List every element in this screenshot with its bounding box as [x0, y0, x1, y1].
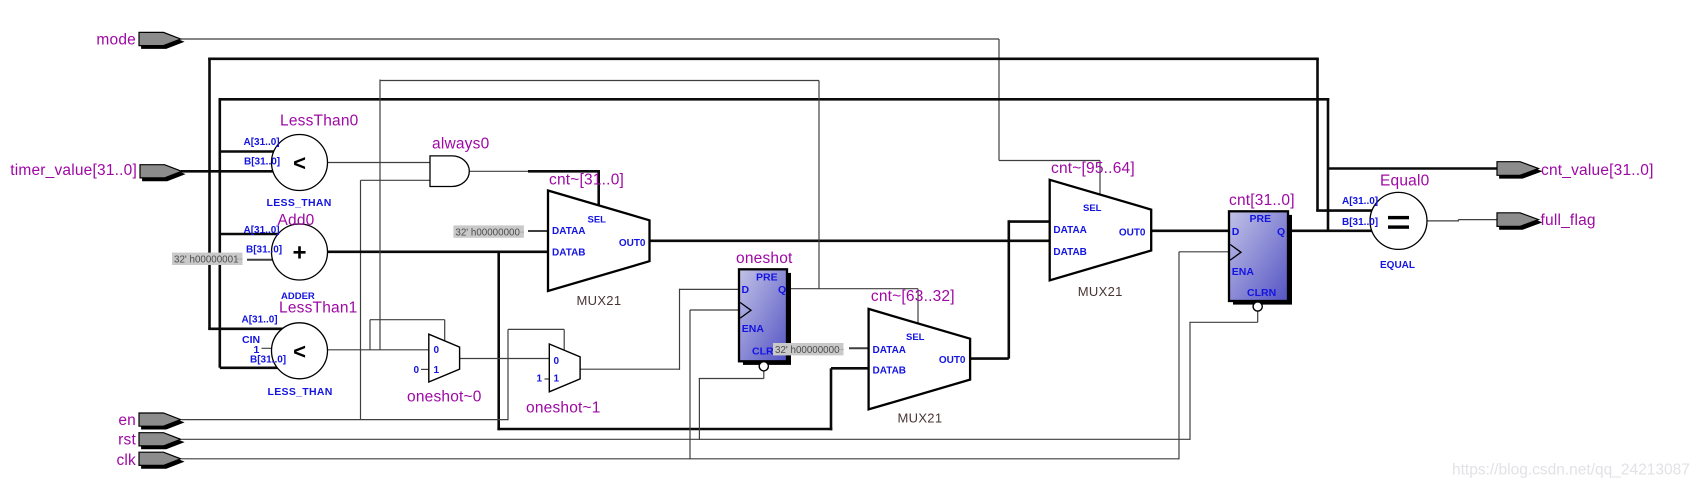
wire oneshot~0 SEL drop: [444, 320, 446, 342]
MUX2 pin OUT0: [939, 355, 966, 366]
wire cnt clock input: [1179, 251, 1230, 253]
wire MUX1 OUT0 to MUX3 DATAB: [650, 240, 1051, 243]
wire LessThan1 CIN stub: [262, 347, 286, 349]
svg-text:PRE: PRE: [756, 271, 778, 283]
wire cnt bus bottom y429: [497, 428, 832, 431]
svg-text:A[31..0]: A[31..0]: [244, 137, 280, 148]
svg-text:B[31..0]: B[31..0]: [1342, 217, 1378, 228]
multiplexer MUX1 cnt~[31..0]: [548, 191, 650, 292]
svg-text:LessThan0: LessThan0: [280, 112, 359, 129]
wire MUX2 SEL drop x918: [917, 289, 919, 324]
oneshot~1 port 1 label: [554, 374, 560, 385]
svg-text:PRE: PRE: [1250, 213, 1272, 225]
LessThan0 pin A[31..0]: [244, 137, 280, 148]
svg-text:timer_value[31..0]: timer_value[31..0]: [10, 162, 137, 179]
svg-text:--: --: [518, 227, 525, 238]
wire MUX2 OUT0: [969, 357, 1009, 360]
wire mode vertical x999: [998, 39, 1000, 161]
flip-flop cnt[31..0]: [1229, 211, 1292, 304]
wire Add0 B input from constant: [247, 259, 278, 261]
svg-text:32' h00000000: 32' h00000000: [455, 227, 520, 238]
wire cnt feedback vertical x219: [219, 98, 222, 368]
wire oneshot D input: [680, 288, 741, 290]
svg-text:32' h00000001: 32' h00000001: [174, 255, 239, 266]
wire en riser x508: [507, 329, 509, 420]
MUX2 pin DATAB: [873, 365, 907, 376]
wire always0 output bus: [528, 170, 599, 173]
input pin clk: [116, 452, 183, 469]
wire Add0 output to MUX1 DATAB: [326, 251, 549, 254]
MUX2 pin DATAA: [873, 345, 907, 356]
cnt CLRN bubble: [1253, 302, 1262, 311]
svg-text:--: --: [838, 345, 845, 356]
MUX1 type label MUX21: [577, 293, 622, 308]
svg-text:oneshot~0: oneshot~0: [407, 388, 482, 405]
LessThan0 type label LESS_THAN: [267, 197, 332, 209]
svg-text:SEL: SEL: [1083, 203, 1102, 214]
adder Add0 symbol: [272, 224, 328, 280]
wire mode horizontal: [181, 38, 999, 40]
MUX1 pin SEL: [588, 214, 607, 225]
svg-text:DATAA: DATAA: [552, 226, 586, 237]
cnt pin ENA: [1232, 266, 1255, 278]
svg-text:DATAA: DATAA: [873, 345, 907, 356]
svg-text:OUT0: OUT0: [619, 238, 646, 249]
wire timer_value vertical x209: [208, 58, 211, 329]
MUX1 name label cnt~[31..0]: [549, 171, 624, 188]
Equal0 pin B[31..0]: [1342, 217, 1378, 228]
wire MUX3 SEL drop: [1099, 161, 1101, 196]
wire LessThan0 output to AND: [326, 162, 430, 164]
svg-text:ENA: ENA: [1232, 266, 1255, 278]
svg-text:CLRN: CLRN: [1247, 287, 1276, 299]
LessThan0 pin B[31..0]: [244, 156, 280, 167]
MUX3 pin DATAB: [1053, 247, 1087, 258]
svg-text:MUX21: MUX21: [898, 410, 943, 425]
input pin rst: [118, 431, 183, 448]
MUX3 pin OUT0: [1119, 228, 1146, 239]
mux oneshot~1: [549, 344, 580, 392]
wire MUX3 OUT0 to cnt D: [1150, 230, 1230, 233]
svg-text:MUX21: MUX21: [577, 293, 622, 308]
svg-text:oneshot: oneshot: [736, 250, 793, 267]
wire cnt CLRN down: [1257, 311, 1259, 322]
LessThan1 pin CIN: [242, 334, 260, 346]
constant 32'h00000001 value box: [172, 253, 243, 266]
comparator LessThan1 symbol: [272, 323, 328, 379]
svg-text:ENA: ENA: [742, 323, 765, 335]
multiplexer MUX3 cnt~[95..64]: [1050, 180, 1152, 280]
wire LessThan0 A input: [220, 150, 276, 153]
MUX2 type label MUX21: [898, 410, 943, 425]
wire oneshot~1 SEL drop: [563, 329, 565, 351]
wire clk riser x690: [689, 310, 691, 459]
wire Add0 A input: [220, 233, 280, 236]
mux oneshot~0: [429, 334, 460, 382]
svg-text:EQUAL: EQUAL: [1380, 260, 1415, 271]
oneshot pin ENA: [742, 323, 765, 335]
Add0 type label ADDER: [281, 291, 315, 302]
oneshot~1 const 1 label: [537, 373, 543, 384]
svg-text:32' h00000000: 32' h00000000: [775, 345, 840, 356]
comparator Equal0 symbol: [1370, 192, 1427, 249]
wire always0 output thin: [469, 170, 529, 172]
cnt pin CLRN: [1247, 287, 1276, 299]
wire oneshot~1 out riser x679: [679, 289, 681, 370]
svg-text:A[31..0]: A[31..0]: [242, 314, 278, 325]
wire constant to MUX1 DATAA: [528, 230, 550, 232]
svg-text:1: 1: [434, 365, 440, 376]
wire MUX1 SEL drop: [597, 170, 600, 206]
wire oneshot CLR down: [763, 371, 765, 379]
Equal0 type label EQUAL: [1380, 260, 1415, 271]
svg-text:<: <: [293, 151, 306, 176]
comparator LessThan0 symbol: [272, 135, 328, 191]
wire Equal0 A input: [1316, 209, 1374, 212]
svg-text:D: D: [1232, 226, 1240, 238]
svg-text:1: 1: [554, 374, 560, 385]
svg-text:Add0: Add0: [278, 212, 315, 229]
wire oneshot Q feedback drop x819: [818, 81, 820, 289]
Add0 pin B[31..0]: [246, 245, 282, 256]
constant 32'h00000000 value box (MUX2): [773, 343, 844, 356]
svg-text:Q: Q: [1277, 226, 1285, 238]
Equal0 name label: [1380, 172, 1430, 189]
wire cnt Q to Equal0 B: [1290, 230, 1374, 233]
svg-text:0: 0: [554, 356, 560, 367]
svg-text:Q: Q: [778, 284, 786, 296]
wire constant to MUX2 DATAA: [849, 347, 870, 349]
svg-text:https://blog.csdn.net/qq_24213: https://blog.csdn.net/qq_24213087: [1452, 462, 1690, 479]
svg-text:cnt~[63..32]: cnt~[63..32]: [871, 288, 955, 305]
wire rst riser x699: [698, 379, 700, 440]
AND gate always0: [430, 156, 469, 187]
svg-text:DATAB: DATAB: [552, 248, 586, 259]
wire timer_value drop x1317 to Equal0: [1316, 59, 1319, 211]
wire oneshot Q feedback top y80: [380, 80, 819, 82]
svg-text:clk: clk: [116, 452, 136, 469]
MUX3 pin SEL: [1083, 203, 1102, 214]
wire cnt_value output bus: [1328, 167, 1498, 170]
svg-text:oneshot~1: oneshot~1: [526, 399, 601, 416]
svg-text:mode: mode: [96, 31, 136, 48]
always0 name label: [432, 136, 490, 153]
wire mode to MUX3 sel: [999, 160, 1100, 162]
LessThan0 name label: [280, 112, 359, 129]
wire LessThan1 out riser x370: [369, 320, 371, 350]
svg-text:LESS_THAN: LESS_THAN: [267, 197, 332, 209]
cnt name label cnt[31..0]: [1229, 192, 1295, 209]
svg-text:rst: rst: [118, 431, 136, 448]
wire rst input: [182, 438, 1190, 440]
svg-text:OUT0: OUT0: [1119, 228, 1146, 239]
LessThan1 pin A[31..0]: [242, 314, 278, 325]
svg-text:always0: always0: [432, 136, 490, 153]
svg-text:A[31..0]: A[31..0]: [244, 225, 280, 236]
wire cnt bus rise x831 to MUX2 DATAB: [830, 368, 833, 430]
wire oneshot CLR horizontal: [699, 378, 764, 380]
wire MUX2 out riser x1008: [1007, 220, 1010, 358]
svg-text:B[31..0]: B[31..0]: [246, 245, 282, 256]
wire rst riser x1190: [1189, 322, 1191, 440]
cnt pin Q: [1277, 226, 1285, 238]
wire oneshot~0 output: [459, 358, 551, 360]
svg-text:0: 0: [434, 345, 440, 356]
wire en input: [182, 419, 508, 421]
wire cnt feedback drop x1328: [1327, 99, 1330, 232]
wire LessThan1 B input: [220, 366, 280, 369]
MUX3 name label cnt~[95..64]: [1051, 160, 1135, 177]
MUX1 pin DATAA: [552, 226, 586, 237]
wire LessThan1 output to oneshot~0: [326, 349, 430, 351]
wire LessThan1 A input: [208, 327, 286, 330]
svg-text:B[31..0]: B[31..0]: [244, 156, 280, 167]
input pin timer_value[31..0]: [10, 162, 184, 181]
svg-text:en: en: [118, 412, 136, 429]
oneshot pin Q: [778, 284, 786, 296]
wire timer_value bus: [181, 170, 276, 173]
oneshot name label: [736, 250, 793, 267]
oneshot pin PRE: [756, 271, 778, 283]
svg-text:A[31..0]: A[31..0]: [1342, 196, 1378, 207]
wire MUX2 DATAB input: [831, 367, 870, 370]
svg-text:D: D: [742, 284, 750, 296]
wire AND input 2 from en: [361, 179, 431, 181]
wire cnt feedback top bus y99: [219, 98, 1330, 101]
svg-text:LessThan1: LessThan1: [279, 300, 358, 317]
svg-text:B[31..0]: B[31..0]: [250, 354, 286, 365]
wire oneshot~0 port1 const stub: [421, 368, 430, 370]
output pin full_flag: [1497, 212, 1596, 229]
Add0 name label: [278, 212, 315, 229]
svg-text:CLR: CLR: [752, 345, 774, 357]
wire clk input: [182, 458, 1179, 460]
svg-text:SEL: SEL: [588, 214, 607, 225]
watermark text: [1452, 462, 1690, 479]
svg-text:MUX21: MUX21: [1078, 284, 1123, 299]
Add0 pin A[31..0]: [244, 225, 280, 236]
MUX1 pin OUT0: [619, 238, 646, 249]
MUX3 type label MUX21: [1078, 284, 1123, 299]
oneshot~1 port 0 label: [554, 356, 560, 367]
wire cnt CLRN horizontal: [1189, 321, 1257, 323]
MUX2 pin SEL: [906, 332, 925, 343]
svg-text:cnt[31..0]: cnt[31..0]: [1229, 192, 1295, 209]
svg-text:DATAB: DATAB: [873, 365, 907, 376]
oneshot pin D: [742, 284, 750, 296]
wire MUX3 DATAA input: [1009, 220, 1051, 223]
flip-flop oneshot: [739, 269, 791, 365]
svg-text:+: +: [292, 240, 306, 267]
output pin cnt_value[31..0]: [1497, 162, 1654, 179]
wire cnt bus drop x498: [497, 252, 500, 430]
LessThan1 name label: [279, 300, 358, 317]
MUX1 pin DATAB: [552, 248, 586, 259]
wire oneshot~1 output: [579, 368, 679, 370]
svg-text:Equal0: Equal0: [1380, 172, 1430, 189]
svg-text:<: <: [293, 339, 306, 364]
svg-text:DATAA: DATAA: [1053, 225, 1087, 236]
wire clk riser x1179: [1178, 252, 1180, 460]
cnt pin D: [1232, 226, 1240, 238]
oneshot~0 port 0 label: [434, 345, 440, 356]
svg-text:LESS_THAN: LESS_THAN: [268, 386, 333, 398]
svg-text:--: --: [237, 254, 244, 265]
svg-text:SEL: SEL: [906, 332, 925, 343]
wire oneshot~1 port1 const stub: [545, 378, 551, 380]
input pin mode: [96, 31, 183, 48]
multiplexer MUX2 cnt~[63..32]: [869, 309, 971, 410]
wire oneshot clock input: [690, 309, 740, 311]
Equal0 pin A[31..0]: [1342, 196, 1378, 207]
svg-text:1: 1: [537, 373, 543, 384]
wire oneshot~0 SEL top: [370, 319, 445, 321]
wire oneshot Q output: [790, 288, 919, 290]
LessThan1 type label LESS_THAN: [268, 386, 333, 398]
LessThan1 CIN constant 1: [254, 344, 260, 356]
input pin en: [118, 412, 183, 429]
wire en to AND vertical x360: [360, 180, 362, 419]
oneshot~0 port 1 label: [434, 365, 440, 376]
oneshot~1 name label: [526, 399, 601, 416]
wire oneshot Q feedback vertical x380: [379, 80, 381, 350]
svg-text:cnt_value[31..0]: cnt_value[31..0]: [1541, 162, 1654, 179]
wire Equal0 output: [1425, 220, 1498, 222]
oneshot~0 const 0 label: [414, 365, 420, 376]
svg-text:DATAB: DATAB: [1053, 247, 1087, 258]
oneshot~0 name label: [407, 388, 482, 405]
svg-text:OUT0: OUT0: [939, 355, 966, 366]
oneshot pin CLR: [752, 345, 774, 357]
svg-text:full_flag: full_flag: [1541, 212, 1596, 229]
svg-text:0: 0: [414, 365, 420, 376]
MUX3 pin DATAA: [1053, 225, 1087, 236]
wire timer_value top bus y58: [208, 57, 1319, 60]
cnt pin PRE: [1250, 213, 1272, 225]
svg-text:cnt~[31..0]: cnt~[31..0]: [549, 171, 624, 188]
LessThan1 pin B[31..0]: [250, 354, 286, 365]
svg-text:cnt~[95..64]: cnt~[95..64]: [1051, 160, 1135, 177]
wire en to oneshot~1 SEL top: [508, 328, 564, 330]
constant 32'h00000000 value box (MUX1): [453, 225, 524, 238]
MUX2 name label cnt~[63..32]: [871, 288, 955, 305]
oneshot CLR bubble: [759, 362, 768, 371]
